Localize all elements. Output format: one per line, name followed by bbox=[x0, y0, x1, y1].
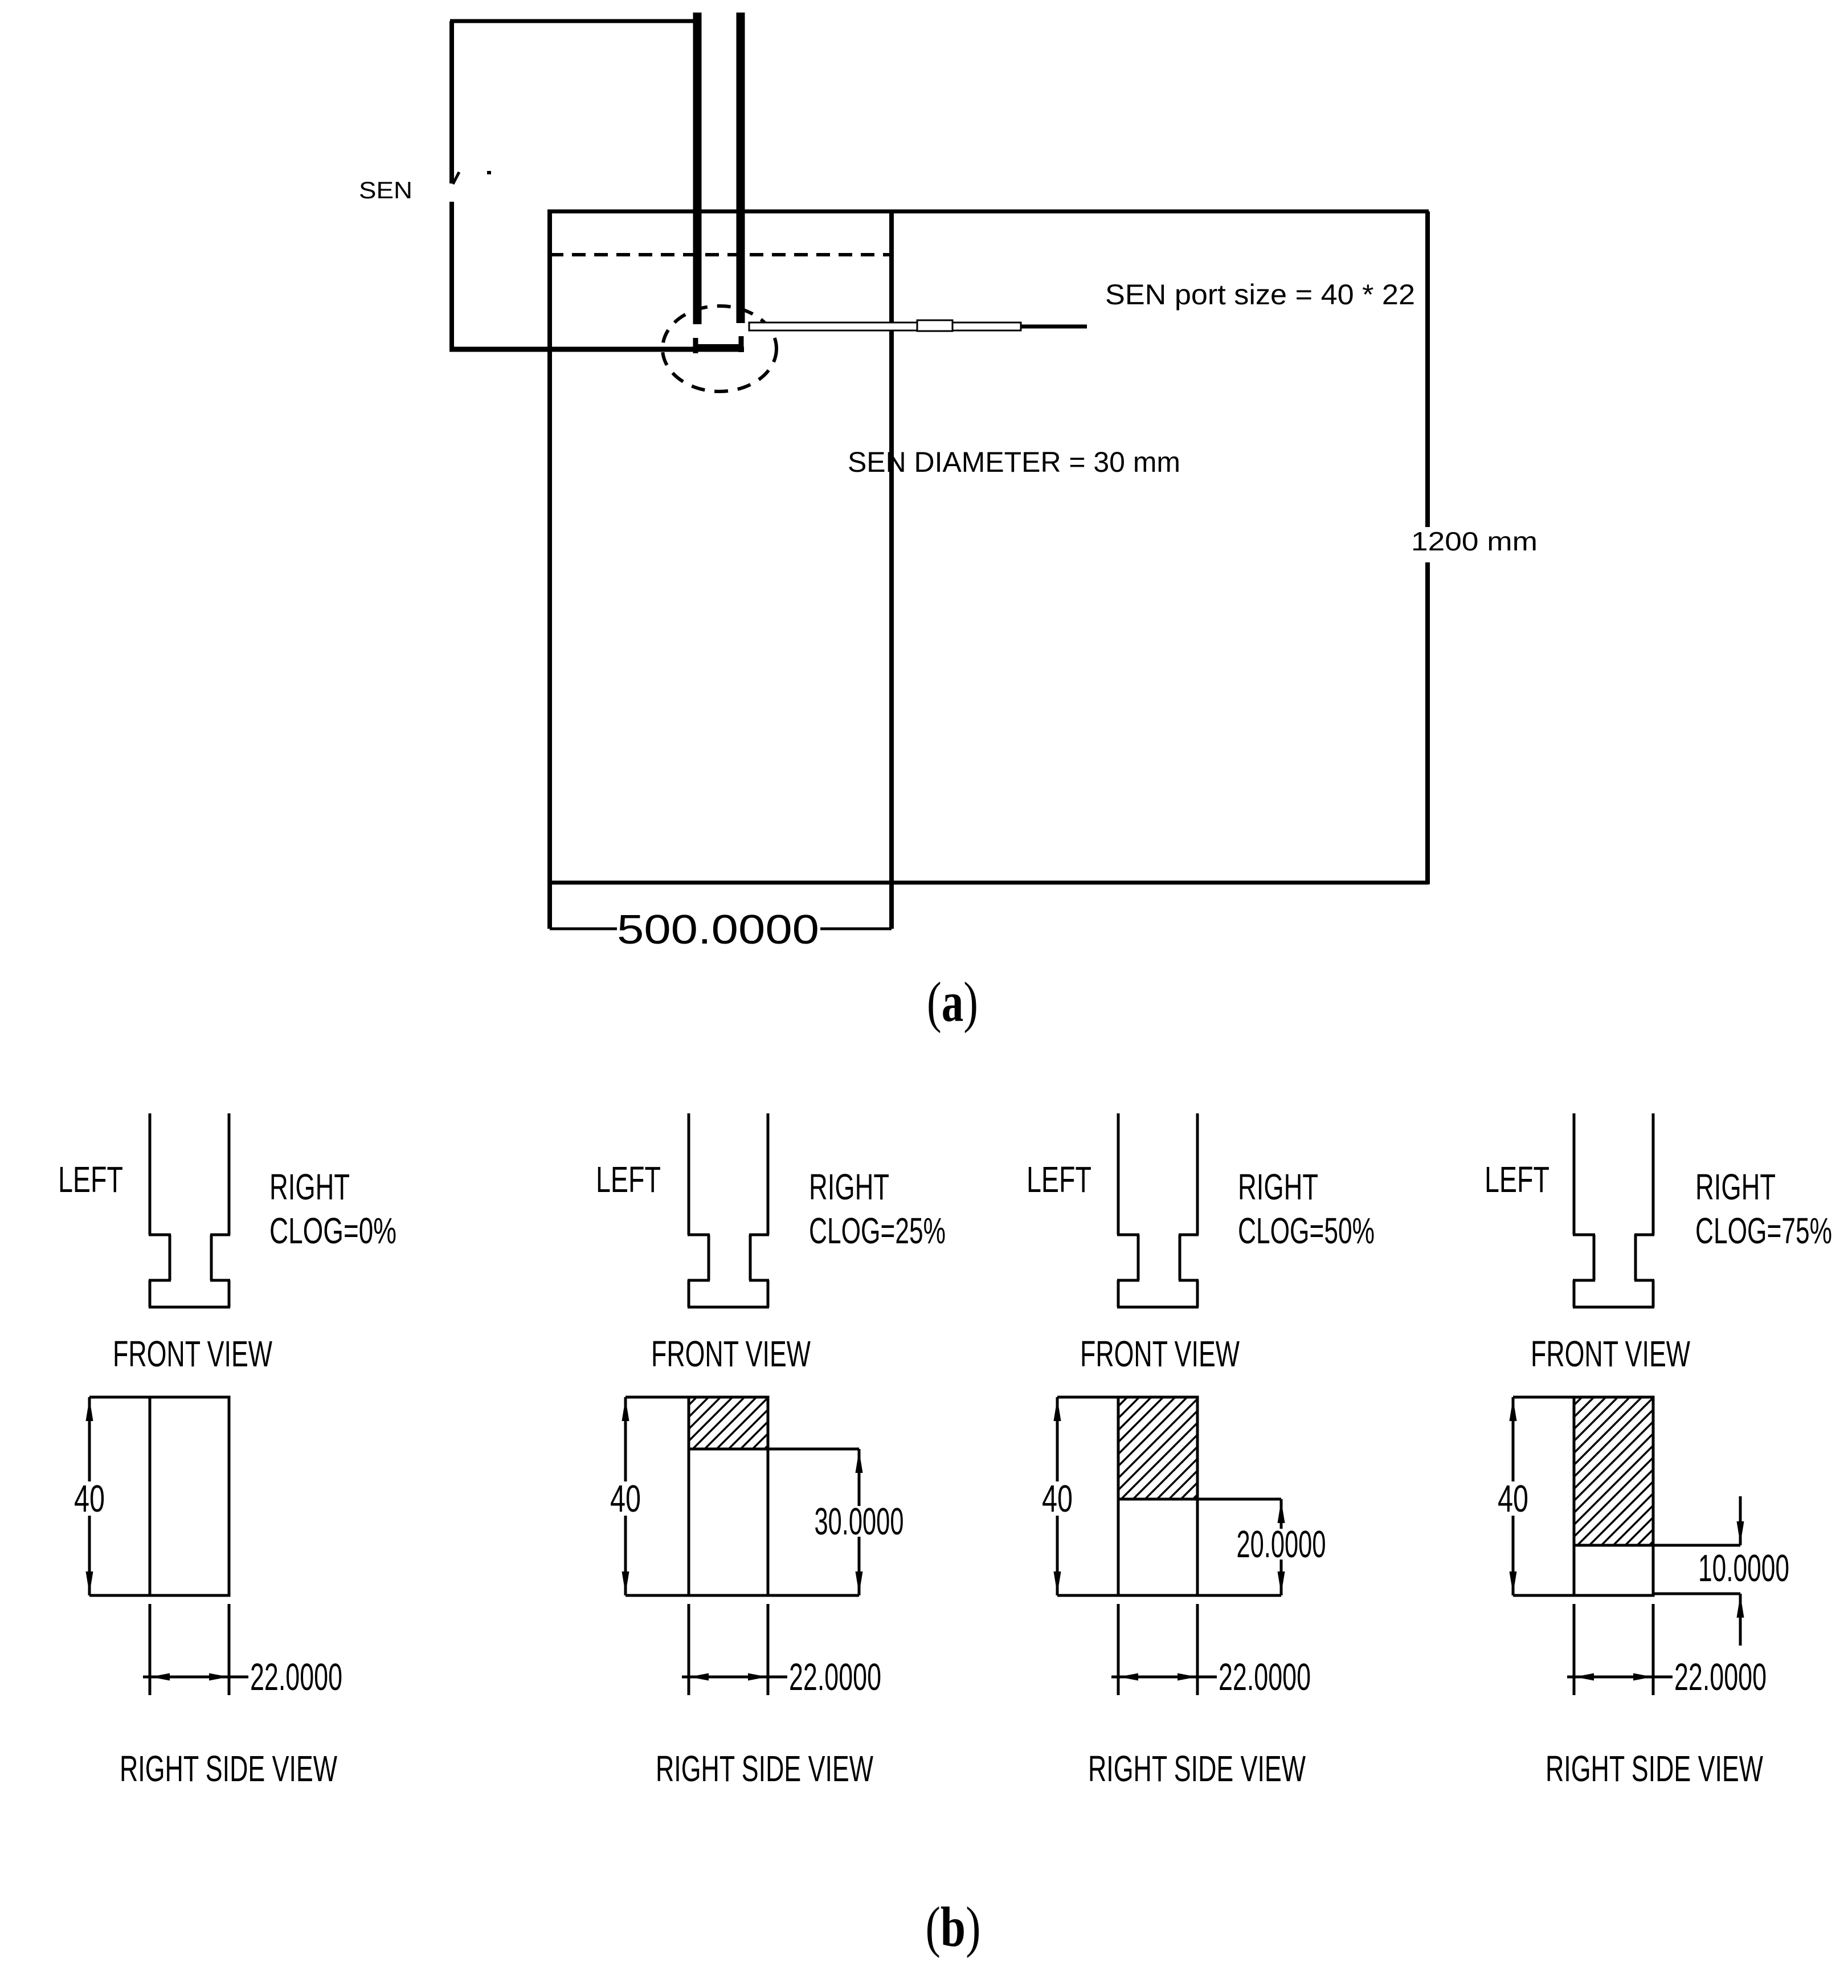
svg-text:CLOG=0%: CLOG=0% bbox=[269, 1210, 396, 1251]
svg-text:RIGHT: RIGHT bbox=[1238, 1166, 1318, 1207]
svg-text:FRONT VIEW: FRONT VIEW bbox=[1080, 1333, 1240, 1374]
svg-text:20.0000: 20.0000 bbox=[1237, 1523, 1326, 1566]
svg-text:(b): (b) bbox=[926, 1895, 981, 1958]
svg-text:RIGHT: RIGHT bbox=[809, 1166, 889, 1207]
svg-text:CLOG=75%: CLOG=75% bbox=[1695, 1210, 1832, 1251]
svg-text:SEN DIAMETER = 30 mm: SEN DIAMETER = 30 mm bbox=[848, 446, 1180, 478]
svg-text:30.0000: 30.0000 bbox=[815, 1500, 904, 1543]
svg-text:RIGHT SIDE VIEW: RIGHT SIDE VIEW bbox=[656, 1748, 873, 1789]
svg-text:1200 mm: 1200 mm bbox=[1411, 526, 1538, 556]
svg-text:22.0000: 22.0000 bbox=[789, 1656, 881, 1699]
svg-text:500.0000: 500.0000 bbox=[617, 907, 819, 953]
svg-text:RIGHT SIDE VIEW: RIGHT SIDE VIEW bbox=[120, 1748, 337, 1789]
svg-text:LEFT: LEFT bbox=[1027, 1159, 1091, 1200]
svg-text:(a): (a) bbox=[927, 970, 978, 1034]
svg-text:40: 40 bbox=[74, 1477, 105, 1520]
svg-text:RIGHT: RIGHT bbox=[269, 1166, 350, 1207]
svg-text:RIGHT SIDE VIEW: RIGHT SIDE VIEW bbox=[1546, 1748, 1763, 1789]
svg-text:10.0000: 10.0000 bbox=[1698, 1547, 1789, 1590]
svg-text:SEN: SEN bbox=[359, 177, 412, 203]
svg-text:22.0000: 22.0000 bbox=[250, 1656, 342, 1699]
svg-text:FRONT VIEW: FRONT VIEW bbox=[1531, 1333, 1690, 1374]
svg-text:40: 40 bbox=[1042, 1477, 1073, 1520]
svg-text:SEN port size = 40 * 22: SEN port size = 40 * 22 bbox=[1105, 279, 1415, 311]
svg-text:FRONT VIEW: FRONT VIEW bbox=[651, 1333, 811, 1374]
svg-text:22.0000: 22.0000 bbox=[1674, 1656, 1767, 1699]
svg-text:LEFT: LEFT bbox=[1485, 1159, 1549, 1200]
svg-text:22.0000: 22.0000 bbox=[1219, 1656, 1311, 1699]
svg-text:LEFT: LEFT bbox=[58, 1159, 123, 1200]
svg-text:FRONT VIEW: FRONT VIEW bbox=[113, 1333, 272, 1374]
svg-text:RIGHT: RIGHT bbox=[1695, 1166, 1776, 1207]
svg-text:CLOG=25%: CLOG=25% bbox=[809, 1210, 946, 1251]
svg-text:40: 40 bbox=[610, 1477, 641, 1520]
svg-text:40: 40 bbox=[1498, 1477, 1528, 1520]
svg-text:RIGHT SIDE VIEW: RIGHT SIDE VIEW bbox=[1088, 1748, 1306, 1789]
svg-text:LEFT: LEFT bbox=[596, 1159, 661, 1200]
svg-text:CLOG=50%: CLOG=50% bbox=[1238, 1210, 1375, 1251]
